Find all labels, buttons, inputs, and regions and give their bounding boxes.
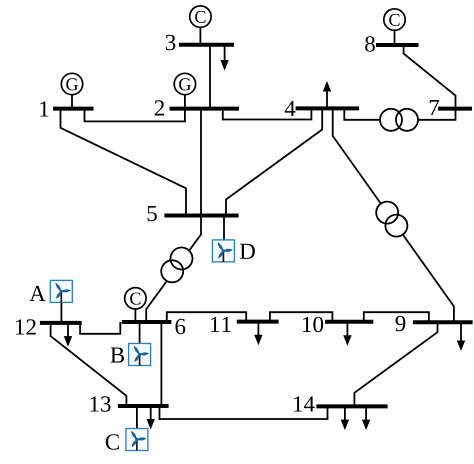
wire line 1-5 — [61, 109, 187, 216]
condenser C8 — [384, 9, 405, 45]
wire line 2-3 — [209, 45, 211, 109]
wind turbine D — [212, 216, 254, 262]
load arrow bus 12 — [64, 323, 72, 347]
condenser C6 — [125, 288, 146, 322]
bus 12 — [16, 319, 82, 334]
transformer T5-6 — [161, 248, 192, 283]
wire line 10-11 — [270, 312, 333, 322]
transformer T4-9 — [376, 202, 407, 237]
wire line 2-5 — [200, 109, 202, 216]
load arrow bus 9 — [457, 322, 465, 351]
wire line 6-13 — [160, 322, 162, 406]
bus 10 — [303, 317, 373, 333]
wind turbine B — [110, 322, 150, 366]
bus 9 — [395, 316, 472, 331]
wind turbine C — [106, 406, 148, 451]
bus 13 — [91, 396, 169, 411]
bus 1 — [40, 101, 93, 116]
bus 3 — [166, 35, 234, 50]
wire line 5-6 — [146, 216, 201, 323]
bus 4 — [285, 101, 359, 116]
wire line 7-8 — [404, 45, 456, 109]
load arrow bus 14 right — [362, 406, 370, 430]
bus 11 — [211, 317, 279, 332]
wire line 4-7 — [344, 108, 455, 119]
load arrow bus 13 — [147, 406, 155, 430]
wire line 4-9 — [333, 108, 454, 322]
wire line 6-11 — [167, 312, 246, 322]
wire line 2-4 — [223, 108, 312, 119]
load arrow bus 14 left — [341, 406, 349, 430]
bus 6 — [122, 319, 186, 334]
bus 5 — [148, 206, 239, 221]
load arrow bus 11 — [254, 322, 262, 346]
wire line 1-2 — [85, 109, 185, 122]
wind turbine A — [29, 280, 72, 323]
wire line 9-10 — [364, 312, 429, 322]
wire line 6-12 — [80, 322, 120, 334]
bus 8 — [365, 36, 418, 52]
wire line 12-13 — [51, 323, 127, 406]
bus 14 — [294, 396, 388, 411]
wire line 9-14 — [354, 322, 437, 406]
load arrow bus 10 — [343, 322, 351, 346]
bus 7 — [430, 100, 472, 115]
transformer T4-7 — [380, 109, 418, 131]
bus 2 — [155, 100, 239, 115]
wire line 4-5 — [226, 108, 322, 215]
wire line 13-14 — [160, 406, 328, 419]
condenser C3 — [190, 6, 211, 45]
generator G1 — [61, 73, 82, 108]
generator G2 — [174, 73, 195, 108]
load arrow bus 3 — [220, 45, 228, 71]
injection arrow bus 4 — [323, 81, 331, 108]
